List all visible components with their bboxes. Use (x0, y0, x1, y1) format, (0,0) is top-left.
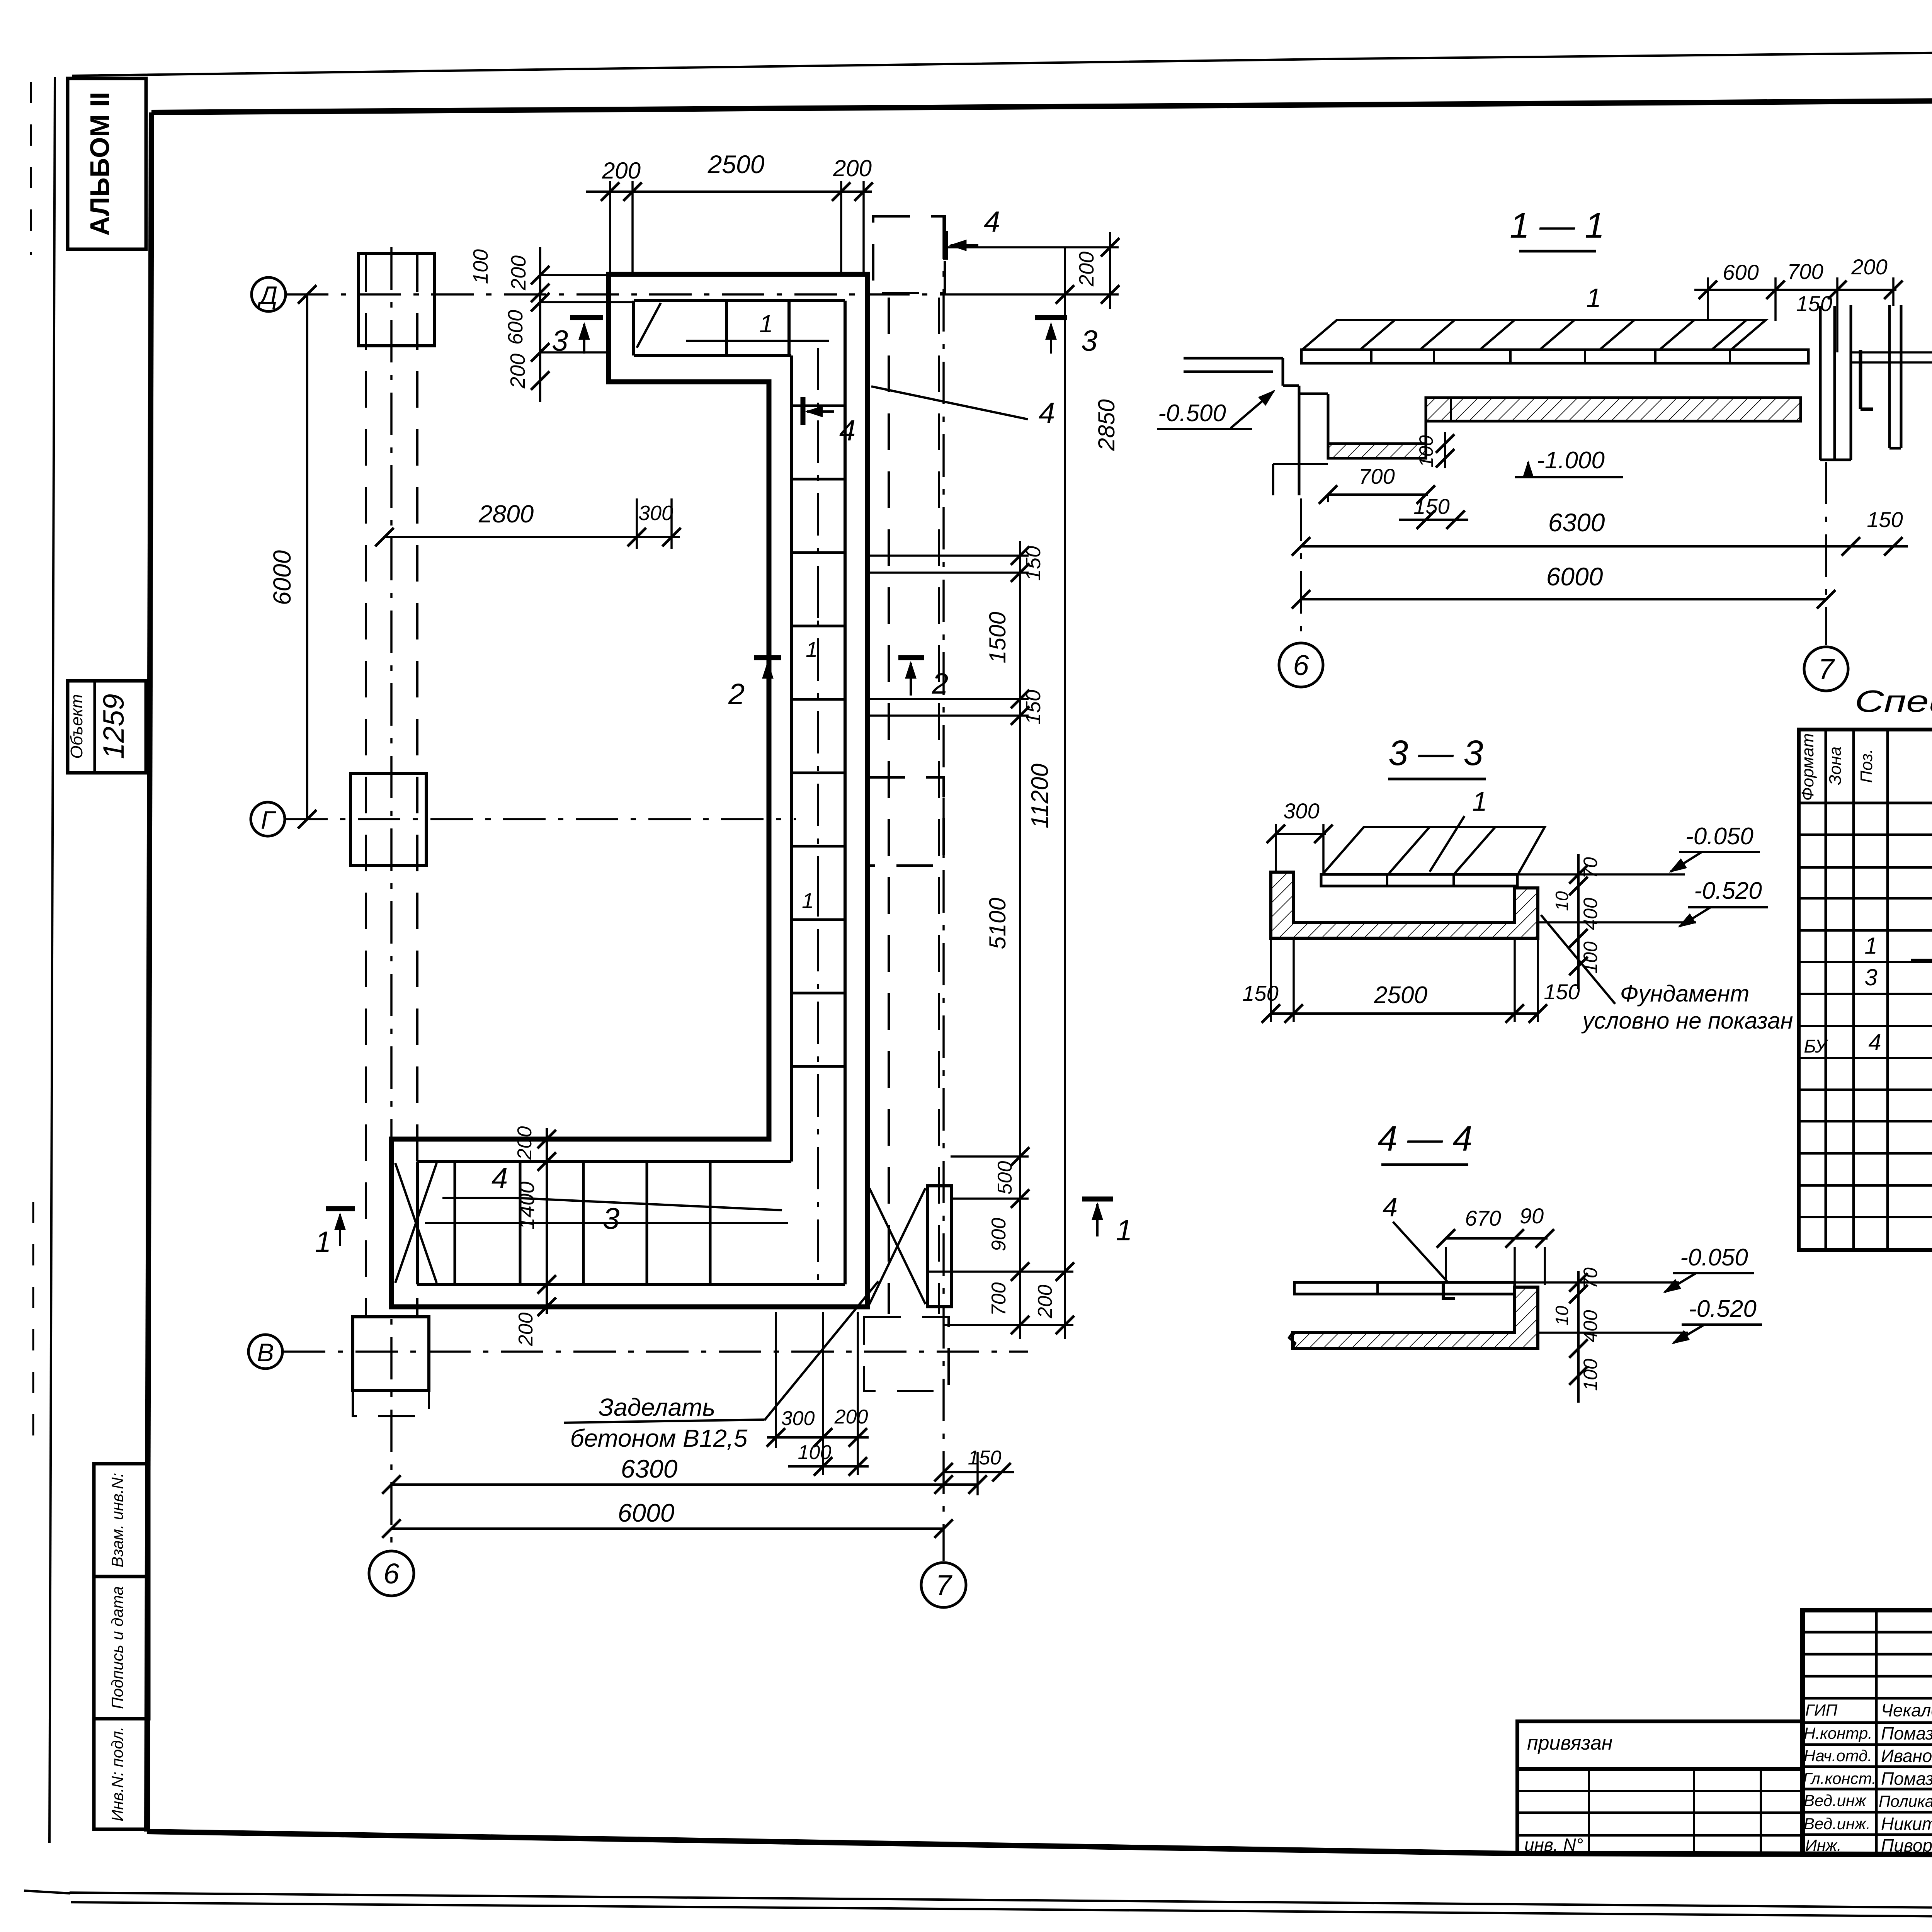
svg-text:300: 300 (638, 502, 673, 525)
svg-text:АЛЬБОМ II: АЛЬБОМ II (85, 92, 115, 236)
svg-text:500: 500 (994, 1161, 1016, 1195)
svg-text:Поликарпов: Поликарпов (1879, 1792, 1932, 1810)
svg-text:условно не показан: условно не показан (1581, 1008, 1793, 1034)
svg-text:200: 200 (1075, 252, 1098, 287)
svg-text:4: 4 (839, 414, 855, 447)
svg-text:150: 150 (1022, 690, 1045, 724)
svg-text:11200: 11200 (1027, 764, 1053, 828)
svg-text:150: 150 (1544, 980, 1580, 1004)
svg-text:Помазов: Помазов (1881, 1769, 1932, 1789)
svg-text:5100: 5100 (985, 898, 1010, 949)
svg-text:-0.050: -0.050 (1680, 1244, 1748, 1271)
svg-text:Объект: Объект (67, 694, 86, 759)
svg-text:6300: 6300 (1548, 508, 1605, 537)
svg-text:150: 150 (1242, 981, 1278, 1005)
svg-text:4: 4 (1868, 1029, 1881, 1055)
svg-text:70: 70 (1580, 1267, 1601, 1289)
svg-text:150: 150 (968, 1447, 1002, 1469)
svg-text:2500: 2500 (1374, 982, 1427, 1009)
svg-text:150: 150 (1413, 494, 1449, 519)
svg-text:2800: 2800 (478, 500, 534, 528)
svg-text:200: 200 (507, 255, 530, 291)
svg-text:3: 3 (603, 1201, 619, 1235)
svg-text:БУ: БУ (1804, 1036, 1828, 1057)
svg-text:Гл.конст.: Гл.конст. (1803, 1769, 1876, 1787)
svg-text:Н.контр.: Н.контр. (1804, 1724, 1872, 1742)
svg-text:3: 3 (1081, 325, 1097, 357)
svg-text:Фундамент: Фундамент (1620, 981, 1750, 1007)
svg-text:4: 4 (1039, 397, 1055, 430)
svg-text:1: 1 (1864, 933, 1877, 959)
svg-text:600: 600 (504, 310, 527, 345)
svg-text:100: 100 (1580, 941, 1601, 974)
svg-text:700: 700 (1787, 259, 1823, 284)
svg-text:200: 200 (506, 354, 529, 389)
svg-text:200: 200 (1851, 255, 1887, 279)
svg-text:100: 100 (1415, 435, 1437, 468)
svg-text:Вед.инж.: Вед.инж. (1804, 1815, 1871, 1833)
svg-text:300: 300 (1283, 799, 1319, 823)
svg-text:1: 1 (802, 888, 814, 913)
svg-text:670: 670 (1465, 1206, 1501, 1230)
svg-text:200: 200 (514, 1126, 536, 1160)
svg-text:Чекалов: Чекалов (1881, 1700, 1932, 1720)
svg-text:привязан: привязан (1527, 1732, 1612, 1754)
svg-text:1: 1 (806, 637, 818, 662)
svg-text:6: 6 (383, 1558, 400, 1590)
svg-text:1400: 1400 (514, 1182, 539, 1230)
svg-text:150: 150 (1796, 291, 1832, 316)
svg-text:200: 200 (1034, 1285, 1056, 1319)
svg-text:300: 300 (781, 1407, 815, 1430)
svg-text:7: 7 (935, 1569, 952, 1601)
svg-text:4: 4 (1383, 1192, 1398, 1222)
svg-text:Д: Д (257, 281, 277, 310)
svg-text:700: 700 (1359, 464, 1395, 488)
svg-text:Заделать: Заделать (599, 1393, 715, 1421)
svg-text:Поз.: Поз. (1857, 749, 1876, 783)
svg-text:1: 1 (1586, 283, 1601, 313)
svg-text:1: 1 (1116, 1214, 1132, 1247)
svg-text:Формат: Формат (1798, 733, 1817, 801)
svg-text:150: 150 (1867, 507, 1903, 532)
svg-text:бетоном В12,5: бетоном В12,5 (570, 1424, 748, 1452)
svg-text:Инж.: Инж. (1805, 1836, 1842, 1854)
svg-text:1500: 1500 (985, 612, 1010, 663)
svg-text:1259: 1259 (97, 694, 130, 759)
svg-text:100: 100 (469, 249, 492, 284)
svg-text:200: 200 (834, 1406, 868, 1428)
svg-text:Зона: Зона (1826, 747, 1845, 785)
svg-text:4: 4 (492, 1162, 508, 1195)
svg-text:100: 100 (1580, 1359, 1601, 1391)
svg-text:2500: 2500 (707, 150, 765, 179)
svg-text:200: 200 (515, 1313, 537, 1347)
svg-text:4 — 4: 4 — 4 (1378, 1119, 1472, 1158)
svg-text:3: 3 (552, 325, 568, 357)
svg-text:6: 6 (1293, 649, 1309, 681)
svg-text:Г: Г (261, 806, 276, 834)
svg-text:150: 150 (1022, 546, 1045, 581)
svg-text:Никитина: Никитина (1881, 1814, 1932, 1834)
svg-text:3 — 3: 3 — 3 (1388, 733, 1483, 773)
svg-text:4: 4 (984, 206, 1000, 238)
svg-text:200: 200 (833, 155, 872, 181)
svg-text:Пиворова: Пиворова (1881, 1835, 1932, 1855)
svg-text:10: 10 (1552, 891, 1572, 911)
svg-text:6000: 6000 (268, 550, 296, 605)
svg-text:-0.500: -0.500 (1158, 400, 1226, 427)
svg-text:Спецификация канала КН6.: Спецификация канала КН6. (1855, 684, 1932, 718)
svg-text:900: 900 (988, 1218, 1010, 1252)
svg-text:6000: 6000 (1546, 562, 1603, 591)
svg-text:1: 1 (759, 310, 773, 338)
svg-text:1 — 1: 1 — 1 (1510, 206, 1604, 245)
svg-text:2: 2 (728, 678, 745, 711)
svg-text:В: В (257, 1338, 274, 1367)
svg-text:400: 400 (1580, 1310, 1601, 1342)
svg-text:-0.050: -0.050 (1685, 823, 1753, 850)
svg-text:-0.520: -0.520 (1689, 1296, 1757, 1322)
svg-text:10: 10 (1552, 1306, 1572, 1326)
svg-text:100: 100 (798, 1441, 832, 1464)
svg-text:Подпись и дата: Подпись и дата (108, 1586, 126, 1709)
svg-text:-1.000: -1.000 (1537, 447, 1605, 474)
svg-text:-0.520: -0.520 (1694, 878, 1762, 904)
svg-text:7: 7 (1818, 653, 1835, 685)
svg-text:600: 600 (1723, 260, 1759, 284)
svg-text:400: 400 (1580, 898, 1601, 930)
svg-text:90: 90 (1520, 1204, 1544, 1228)
svg-text:6000: 6000 (618, 1498, 675, 1527)
svg-text:Вед.инж: Вед.инж (1804, 1791, 1867, 1810)
svg-text:2850: 2850 (1094, 399, 1119, 451)
svg-text:1: 1 (315, 1226, 331, 1259)
svg-text:Иванов: Иванов (1881, 1746, 1932, 1766)
svg-text:ГИП: ГИП (1805, 1701, 1838, 1719)
svg-text:1: 1 (1472, 786, 1487, 816)
svg-text:Нач.отд.: Нач.отд. (1804, 1747, 1872, 1765)
svg-text:Взам. инв.N:: Взам. инв.N: (108, 1473, 126, 1568)
svg-text:3: 3 (1864, 964, 1877, 990)
svg-text:700: 700 (988, 1282, 1010, 1316)
svg-text:200: 200 (602, 158, 641, 184)
svg-text:Помазов: Помазов (1881, 1723, 1932, 1743)
svg-text:70: 70 (1580, 857, 1601, 879)
svg-text:инв. N°: инв. N° (1524, 1835, 1583, 1855)
svg-text:Инв.N: подл.: Инв.N: подл. (108, 1726, 126, 1821)
svg-text:6300: 6300 (621, 1454, 678, 1483)
svg-text:2: 2 (932, 667, 948, 700)
